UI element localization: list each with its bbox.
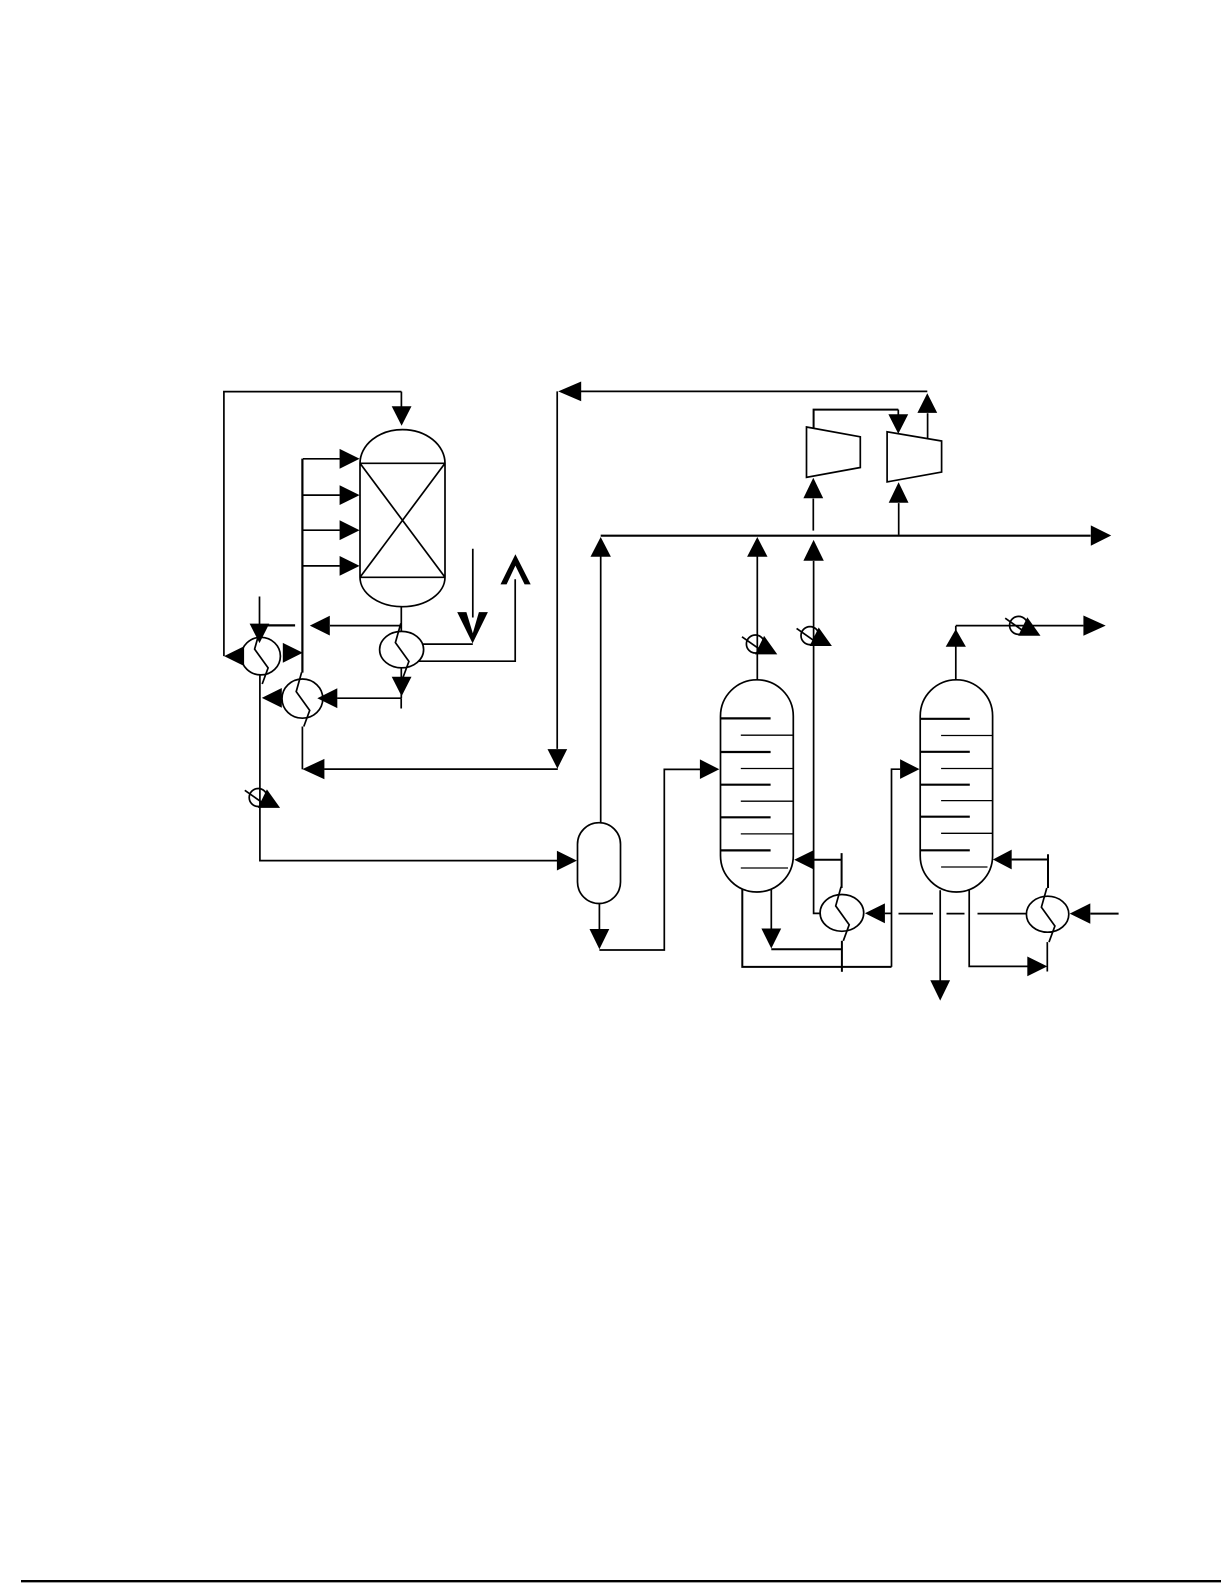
flash drum D1 [578, 823, 621, 904]
T2 trays right [941, 736, 993, 868]
heat exchanger E2 [282, 672, 323, 726]
heat exchanger E5 reboiler T1 [820, 887, 864, 941]
wire E2 bottom tail [301, 727, 303, 770]
compressor K1 [807, 427, 861, 477]
wire E4 outlet down [392, 668, 412, 698]
wire K2 suction [889, 482, 909, 535]
wire reboiler feed line from header [803, 540, 823, 914]
wire E5 hot side inlet [865, 903, 892, 923]
heat exchanger E1 [241, 630, 280, 684]
wire reactor outlet branch left [310, 616, 401, 636]
wire E1 outlet arrow left [224, 646, 244, 666]
wire E2 outlet arrow left [262, 688, 282, 708]
wire flash feed arrow [557, 851, 577, 871]
wire T1 overhead riser [747, 537, 767, 680]
wire E6 hot side inlet [1070, 903, 1119, 923]
wire reboiler interconnect [899, 913, 1027, 915]
wire K1 suction [803, 478, 823, 531]
wire T1 bottoms to reboiler [761, 889, 842, 950]
wire reactor inlet stem [392, 392, 412, 426]
wire reactor feed arrow 2 [302, 485, 359, 505]
wire T2 overhead riser [946, 626, 966, 680]
wire K2 discharge riser [917, 393, 937, 438]
wire cooling water inlet [472, 549, 474, 618]
wire T1 bottoms to T2 feed [892, 759, 920, 967]
wire flash vapor riser [591, 537, 611, 823]
wire K1 interstage to K2 [814, 410, 909, 434]
reactor R1 [360, 430, 445, 607]
heat exchanger E6 reboiler T2 [1026, 888, 1068, 942]
valve V1 overhead [742, 635, 777, 654]
heat exchanger E4 effluent cooler [380, 623, 424, 677]
wire recycle header top [224, 392, 402, 656]
wire recycle return to E2 [302, 759, 557, 779]
T1 trays left [721, 718, 771, 850]
chevron arrow down [457, 612, 488, 643]
compressor K2 [887, 432, 942, 482]
valve V4 letdown [245, 789, 280, 808]
wire E1 inlet side tick [251, 624, 295, 626]
page footer rule [21, 1580, 1221, 1582]
wire E6 bottom tail [1046, 942, 1048, 971]
wire E5 bottom tail [841, 941, 843, 972]
wire reactor feed arrow 3 [302, 520, 359, 540]
wire E1 outlet arrow right [283, 643, 303, 663]
wire reactor feed arrow 4 [302, 556, 359, 576]
wire flash bottoms to column T1 [590, 759, 720, 950]
wire reactor feed arrow 1 [303, 449, 360, 469]
wire reactor feed manifold [301, 459, 303, 673]
chevron arrow up [501, 554, 531, 584]
wire T1 bottoms left leg [742, 890, 891, 967]
wire reactor outlet [400, 607, 402, 632]
wire T2 bottoms to reboiler [969, 890, 1047, 976]
valve V3 overhead product [1005, 616, 1040, 635]
wire E6 return to T2 [993, 850, 1048, 888]
column T2 [920, 680, 992, 892]
wire cw return from E4 [419, 579, 516, 661]
wire T2 overhead product [956, 616, 1106, 636]
wire E1 to letdown valve to flash feed [260, 674, 560, 860]
valve V2 reboiler feed [797, 627, 832, 646]
wire cw supply to E4 [423, 643, 473, 645]
wire recycle header [558, 382, 927, 402]
T1 trays right [741, 735, 794, 868]
wire vapor header [601, 525, 1111, 545]
wire E2 inlet from right [317, 688, 401, 708]
column T1 [721, 680, 794, 892]
wire recycle downcomer [548, 391, 568, 768]
T2 trays left [920, 719, 970, 851]
wire E1 inlet from top [250, 597, 270, 644]
wire E5 return to T1 [794, 850, 841, 888]
wire T2 bottoms product [930, 890, 950, 1000]
